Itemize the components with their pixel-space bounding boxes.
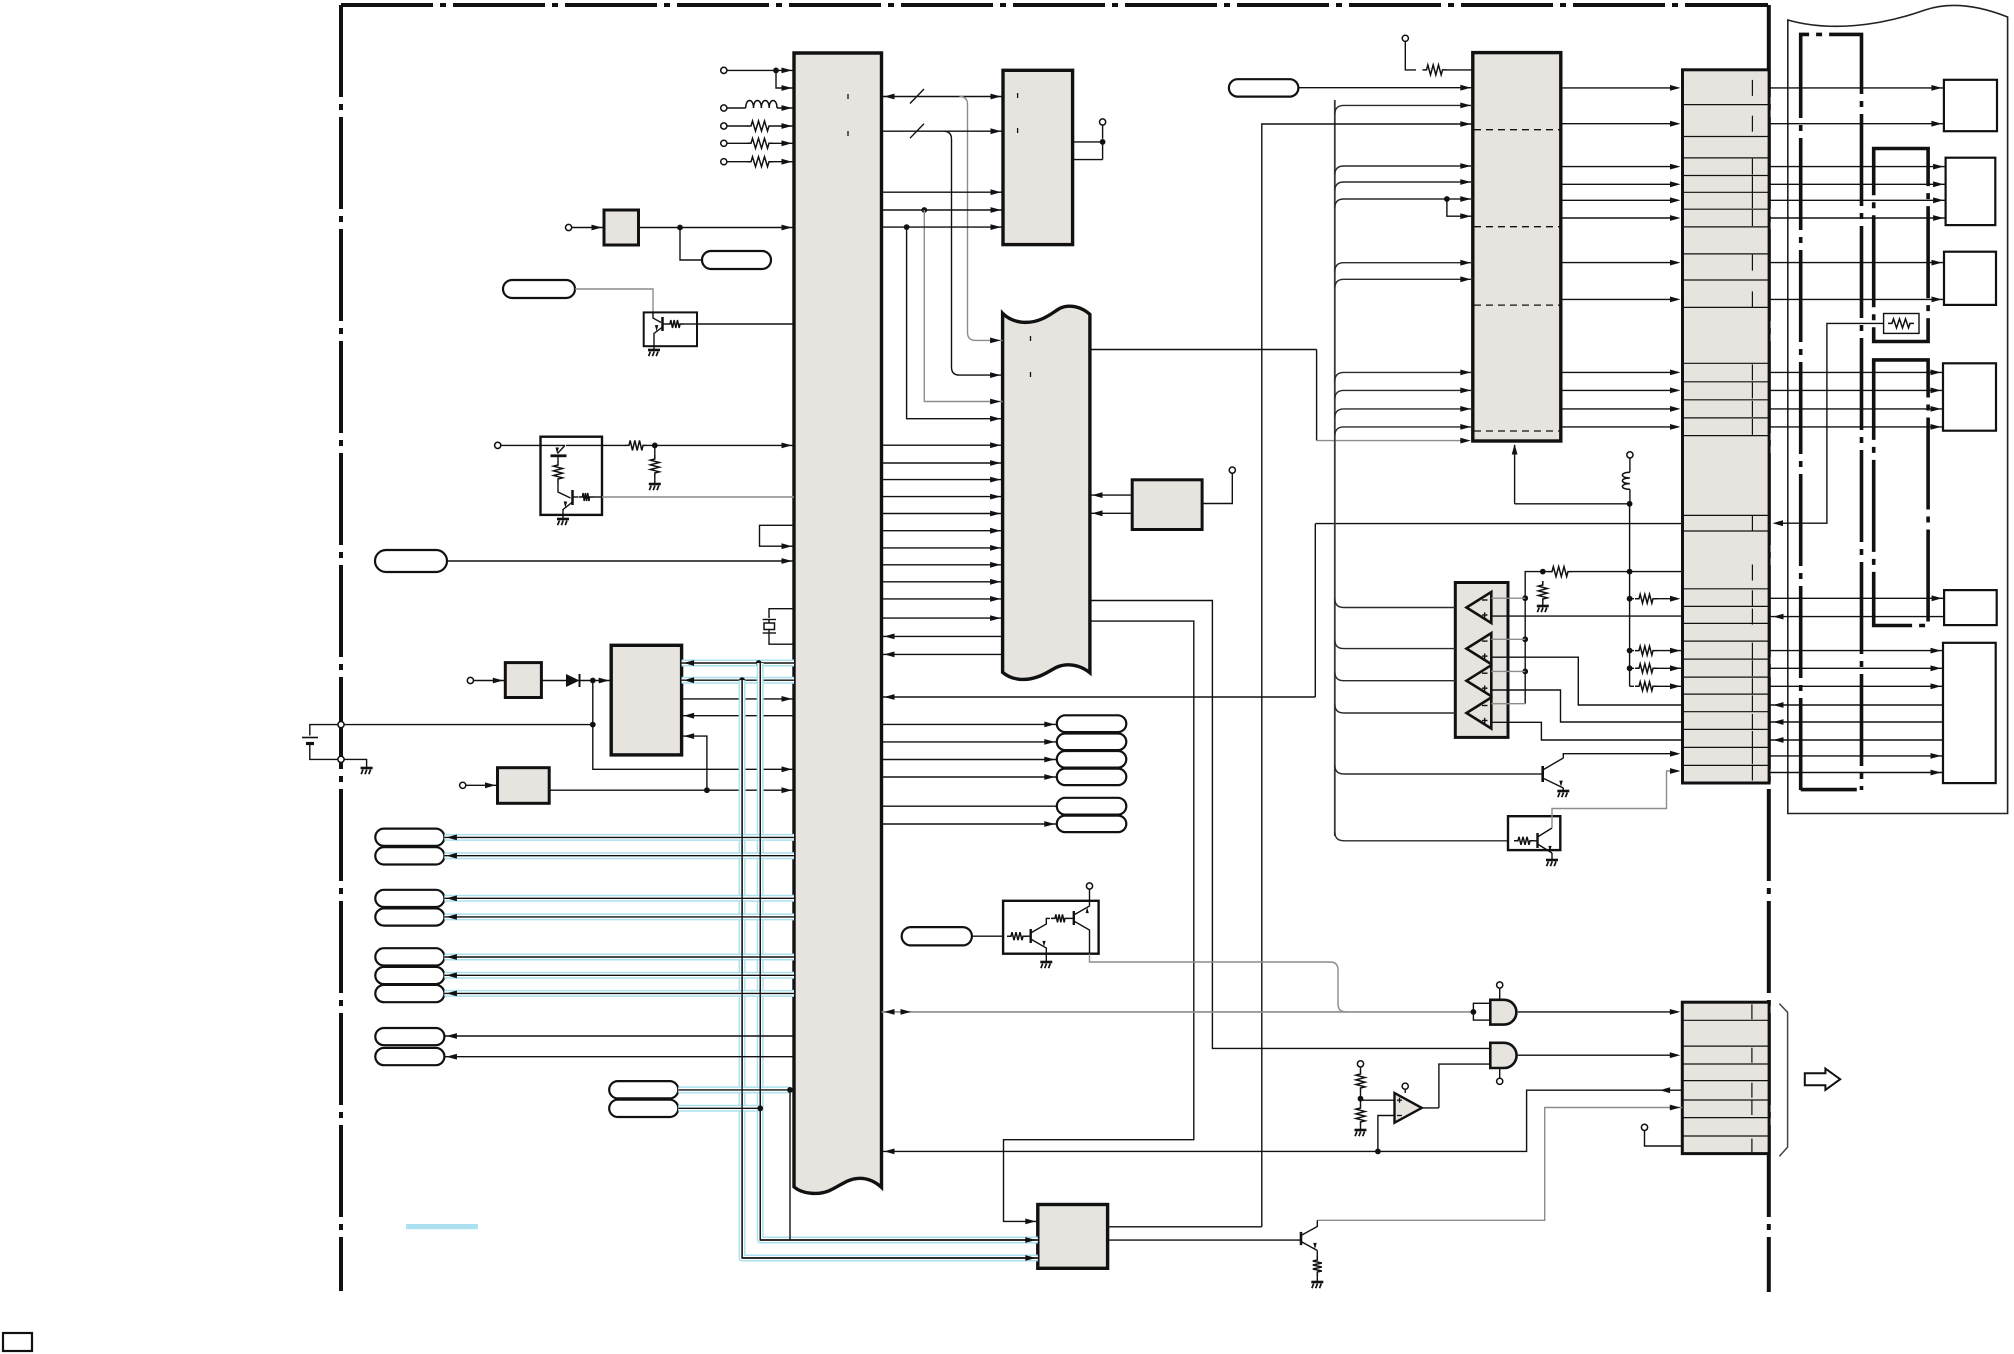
divider CN1 [1683,746,1770,748]
wire minus pin [1491,638,1525,640]
wire CN1-B6 out [1769,650,1943,652]
box B5 [1944,590,1997,625]
wire U4 to CN1 [1561,183,1676,185]
divider CN1 [1683,514,1770,516]
wire E1 drop [789,1090,791,1240]
pad L5 [375,948,444,965]
ic U9 motor driver [1038,1205,1108,1269]
terminal T4 [721,140,727,146]
wire branch B down [944,131,1003,375]
bus wire row A [882,96,1004,98]
pad L4 [375,908,444,925]
wire pad K to Q13 [972,935,1003,937]
ground Q12 [1551,853,1553,860]
wire CN1-B6 low [1769,755,1943,757]
wire B6-CN1 in [1769,704,1943,706]
wire bundle branch t5 [1335,279,1473,288]
wire node V1316a [1316,350,1318,441]
divider dashed U4 [1474,129,1560,131]
divider CN1 [1683,381,1770,383]
resonator X1 [604,210,639,245]
pin divider CN1 [1751,382,1753,398]
wire row 523 [1315,523,1682,525]
wire to pad G [680,228,702,261]
wire pad M1 [882,723,1057,725]
wire CN1-B6 out [1769,685,1943,687]
wire node N1 down [593,681,794,770]
wire row 9 [444,1056,794,1058]
terminal T5 [721,159,727,165]
wire CN1-B5 a [1769,597,1944,599]
ground R12 [1537,605,1549,608]
wire CN1-B2 [1769,166,1946,168]
wire bus fan 14 [882,598,1003,600]
wire feedback top [1262,124,1473,1227]
wire X1 in [572,227,604,229]
wire bundle branch b1 [1335,640,1456,649]
terminal T2 [721,105,727,111]
pin divider CN1 [1751,565,1753,581]
bus wire row B [882,130,1004,132]
pin divider CN1 [1751,159,1753,175]
pad M4 [1057,769,1127,786]
ic U1 system controller [794,53,882,1193]
wire U4 to CN1 [1561,371,1676,373]
wire U4 to CN1 [1561,199,1676,201]
wire U4 to CN1 [1561,262,1676,264]
divider CN1 [1683,279,1770,281]
wire bus fan 15 [882,617,1003,619]
wire X1 out [639,227,795,229]
panel outline right unit [1788,5,2008,813]
ground R18 [1355,1129,1367,1132]
wire to U7 [474,680,505,682]
pin divider CN1 [1751,609,1753,625]
wire U6 in [466,784,498,786]
divider CN2 [1682,1019,1769,1021]
divider CN1 [1683,136,1770,138]
wire pad M3 [882,759,1057,761]
wire ref node [1525,572,1548,599]
wire bus fan 9 [882,513,1003,515]
battery BT1 [338,722,344,728]
bus wire cyan v2 [760,663,1038,1240]
wire CN1-B6 out [1769,667,1943,669]
wire to minus [1378,1116,1395,1152]
wire U8 vcc [1202,473,1232,503]
pin divider CN2 [1751,1004,1753,1019]
pad L7 [375,985,444,1002]
bus wire cyan row 7 [444,990,794,997]
and gate G2 [1490,1043,1516,1068]
pad K [902,927,972,945]
divider CN1 [1683,306,1770,308]
pin divider CN1 [1751,210,1753,226]
pin mark b [847,131,849,136]
wire plus T2 [1491,657,1682,705]
ground R4 [649,483,661,486]
resistor R3 [727,161,748,163]
wire Q1 top row [566,444,626,446]
divider dashed U4 [1474,304,1560,306]
wire U3 out 600 [1090,601,1490,1049]
wire minus pin [1491,670,1525,672]
wire bus fan 8 [882,496,1003,498]
pin divider CN1 [1751,765,1753,781]
divider CN1 [1683,417,1770,419]
photo transistor PC1 [644,312,697,346]
wire row E2 [882,226,1004,228]
resistor R18 [1360,1100,1362,1104]
wire G1 out [1518,1011,1676,1013]
wire crystal bottom [769,633,794,644]
wire CN1-B3 [1769,262,1944,264]
border left dash-dot [339,5,343,1291]
arrow v1 into U9 [1025,1255,1036,1261]
pin mark e [1017,93,1019,98]
pin divider CN1 [1751,748,1753,764]
wire v1 core [742,680,1038,1258]
shield dash-dot rect B [1874,149,1928,342]
pad L2 [375,847,444,864]
wire PC1 out [697,323,794,325]
border top dash-dot [341,3,1768,7]
pin divider CN1 [1751,419,1753,435]
resistor R12 [1538,581,1547,603]
divider CN1 [1683,605,1770,607]
pin divider CN1 [1751,695,1753,711]
connector CN2 body [1682,1002,1769,1153]
pin divider CN1 [1751,714,1753,730]
op-amp U10a [1467,592,1492,623]
bus wire cyan row 4 [444,913,794,920]
wire U8 a [1090,494,1132,496]
arrow into CN1 [1773,719,1784,725]
wire U4 to CN1 [1561,408,1676,410]
bus slash A [910,89,924,104]
wire branch D down [924,210,1002,402]
pin mark a [847,94,849,99]
terminal T14 [1089,889,1091,901]
wire U4 to CN1 [1561,87,1676,89]
divider CN1 [1683,676,1770,678]
ic U7 detector [505,663,541,698]
box B6 [1943,643,1996,783]
wire bus fan 6 [882,462,1003,464]
wire CN1-B2 [1769,183,1946,185]
wire node V1316b [1314,524,1316,697]
wire bundle branch t8 [1335,409,1473,418]
pin divider CN1 [1751,364,1753,380]
wire bundle branch b0 [1335,599,1456,608]
pin divider CN1 [1751,291,1753,307]
wire bus fan 10 [882,530,1003,532]
wire bundle branch t3 [1335,199,1473,208]
pin divider CN1 [1751,401,1753,417]
ground Q1 [562,515,564,519]
bus wire cyan v1 [742,680,1038,1258]
divider CN1 [1683,175,1770,177]
resistor R15 [1630,667,1634,669]
wire CN1-B4 [1769,408,1943,410]
wire crystal top [769,609,794,618]
wire branch to U5 [682,736,707,790]
divider CN1 [1683,711,1770,713]
bus wire E2 [678,1105,760,1112]
arrow fan1 [990,338,1001,344]
pad L8 [375,1028,444,1045]
wire minus pin [1491,597,1525,599]
wire bundle branch t1 [1335,166,1473,175]
pad M5 [1057,798,1127,815]
terminal T19 [1641,1124,1647,1130]
bus slash B [910,124,924,139]
inductor L2 [1629,458,1631,472]
wire row D [882,209,1004,211]
terminal T15 [1499,988,1501,1000]
wire to plus [1361,1099,1395,1101]
box B2 [1946,158,1996,225]
wire U2 vcc loop [1073,141,1103,143]
wire row C [882,191,1004,193]
divider CN1 [1683,399,1770,401]
wire U4 to CN1 [1561,217,1676,219]
pin divider CN1 [1751,515,1753,531]
resistor R10 [1405,41,1416,70]
pad L3 [375,890,444,907]
ic U5 reset [611,645,681,755]
divider CN2 [1682,1045,1769,1047]
ground R19 [1311,1281,1323,1284]
terminal T8 [467,677,473,683]
wire T1 [727,69,794,71]
wire minus bus [1524,598,1526,704]
wire Q12 collector [1552,771,1676,828]
wire Q13 emitter [1090,954,1331,962]
wire CN1-B1 a [1769,87,1944,89]
wire Q1 in [501,444,541,446]
ic U3 display controller [1003,306,1090,679]
divider CN1 [1683,658,1770,660]
terminal T17 [1402,1083,1408,1089]
terminal T3 [721,123,727,129]
divider CN1 [1683,640,1770,642]
wire CN1-B4 [1769,371,1943,373]
terminal T13 [1627,452,1633,458]
op-amp U10d [1467,698,1492,729]
wire plus T3 [1491,690,1682,722]
op-amp U10c [1467,665,1492,696]
wire bundle branch q11 [1335,765,1542,774]
wire CN1-B2 [1769,199,1946,201]
ic U10 comparator array [1455,583,1508,738]
wire Q10 base [1108,1239,1301,1241]
divider CN2 [1682,1099,1769,1101]
bracket CN2 [1779,1004,1787,1157]
divider CN1 [1683,530,1770,532]
wire U4 to CN1 [1561,298,1676,300]
pad E2 [609,1100,678,1117]
pad M2 [1057,734,1127,751]
wire U5 row2 [682,715,794,717]
wire return 1 [882,635,1003,637]
wire CN1-B2 [1769,217,1946,219]
wire pad M5 [882,805,1057,807]
wire branch E down [907,227,1003,419]
transistor Q11 [1541,766,1544,782]
divider CN2 [1682,1080,1769,1082]
op-amp U10b [1467,633,1492,664]
resistor R13 [1630,598,1634,600]
wire pad M4 [882,776,1057,778]
wire bundle branch b2 [1335,672,1456,681]
pin divider CN2 [1751,1048,1753,1063]
wire battery plus [344,724,593,726]
transistor Q12 box [1508,816,1560,850]
terminal T7 [495,442,501,448]
wire Q1 out [602,496,794,498]
wire pad M6 [882,823,1057,825]
box B1 [1944,80,1997,131]
resistor R11 [1548,567,1572,577]
wire CN2 1107 [1317,1108,1682,1221]
wire U8 b [1090,512,1132,514]
box B3 [1944,252,1996,305]
wire bus fan 11 [882,547,1003,549]
resistor box R50 [1884,314,1919,334]
bus wire cyan1 [682,660,794,667]
wire CN2 low [1645,1131,1683,1147]
wire G2 out [1518,1054,1676,1056]
wire B6-CN1 in [1769,739,1943,741]
terminal T18 [1357,1061,1363,1067]
bus wire E1 [678,1086,790,1093]
wire branch A down [960,97,1003,341]
terminal T9 [460,782,466,788]
wire CN1-B4 [1769,389,1943,391]
terminal T11 [1229,467,1235,473]
connector CN1 body [1683,70,1770,783]
resistor R2 [727,142,748,144]
wire bundle branch t9 [1335,427,1473,436]
bus wire cyan row 2 [444,852,794,859]
pad M6 [1057,816,1127,833]
wire CN1-B1 b [1769,123,1944,125]
pad F [375,550,447,572]
ic U8 ram [1132,480,1202,530]
wire branch 216 [1447,199,1473,216]
arrow into CN1 [1773,737,1784,743]
wire plus T1 [1491,615,1682,617]
wire bus fan 13 [882,581,1003,583]
bus wire cyan row 3 [444,895,794,902]
wire G1 input loop [1473,1003,1490,1020]
block arrow symbol [1805,1069,1840,1090]
divider CN1 [1683,693,1770,695]
wire U4 to CN1 [1561,123,1676,125]
junction dot row199 [1444,196,1450,202]
terminal T6 [566,224,572,230]
legend highlighted-wire swatch [406,1224,478,1229]
divider CN1 [1683,362,1770,364]
bus wire cyan2 [682,677,794,684]
wire U11 out [1422,1107,1439,1109]
pin mark c [1030,336,1032,341]
wire U3 out top [1090,349,1317,351]
bus wire cyan row 6 [444,972,794,979]
divider CN2 [1682,1117,1769,1119]
pin divider CN1 [1751,116,1753,132]
pin divider CN1 [1751,176,1753,192]
arrow fan4 [990,416,1001,422]
wire pad F [447,560,794,562]
pin divider CN1 [1751,255,1753,271]
divider CN1 [1683,588,1770,590]
shield dash-dot rect C [1874,360,1928,626]
wire U4 to CN1 [1561,389,1676,391]
divider CN1 [1683,104,1770,106]
pad M1 [1057,715,1127,732]
divider CN1 [1683,157,1770,159]
pin mark f [1017,128,1019,133]
and gate G1 [1490,1000,1516,1025]
wire plus T4 [1491,722,1682,740]
border right dash-dot [1767,5,1771,1292]
terminal T10 [1102,125,1104,139]
wire pad P1 to U4 [1298,87,1472,89]
divider CN1 [1683,253,1770,255]
shield dash-dot rect A [1801,34,1862,790]
divider dashed U4 [1474,226,1560,228]
divider CN1 [1683,622,1770,624]
bus wire gray [882,1011,1474,1013]
wire bundle branch t0 [1335,105,1473,114]
pin divider CN1 [1751,660,1753,676]
transistor pair Q13 [1003,901,1099,954]
divider dashed U4 [1474,430,1560,432]
wire bus fan 12 [882,564,1003,566]
crystal X2 [763,619,776,621]
transistor pair Q1 [541,437,603,515]
wire U4 bottom in [1514,445,1516,504]
inductor L1 [727,107,746,109]
wire bundle branch q12 [1335,832,1508,841]
arrow v2 into U9 [1025,1237,1036,1243]
wire CN1-B3 [1769,298,1944,300]
wire bundle branch t4 [1335,263,1473,272]
wire pad H to PC1 [575,289,653,312]
wire R50 to connector [1779,323,1884,523]
pin divider CN1 [1751,192,1753,208]
comparator U11 [1395,1093,1422,1123]
divider CN1 [1683,435,1770,437]
wire CN1-B5 b [1769,616,1944,618]
wire U5 out [682,698,794,700]
wire CN1-B6 low [1769,772,1943,774]
pad L9 [375,1048,444,1065]
ground battery [344,759,366,768]
ic U2 decoder [1003,70,1073,244]
wire B6-CN1 in [1769,721,1943,723]
wire CN1-B4 [1769,426,1943,428]
ic U4 driver [1473,53,1561,441]
pin divider CN2 [1751,1139,1753,1154]
pin divider CN1 [1751,643,1753,659]
pin divider CN1 [1751,590,1753,606]
resistor R19 [1316,1254,1318,1257]
resistor R16 [1630,685,1634,687]
divider CN1 [1683,208,1770,210]
